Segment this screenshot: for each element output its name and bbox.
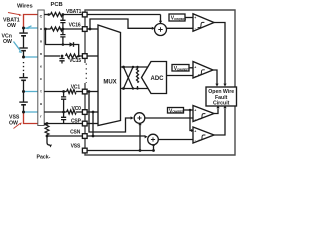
svg-text:Pack-: Pack- [37, 155, 51, 161]
svg-text:VOW(REF): VOW(REF) [171, 16, 186, 22]
svg-text:OW: OW [9, 120, 18, 126]
svg-text:Wires: Wires [17, 3, 33, 9]
svg-text:Circuit: Circuit [213, 100, 230, 106]
svg-text:OW: OW [3, 39, 12, 45]
svg-text:+: + [194, 109, 196, 113]
svg-text:VC15: VC15 [69, 58, 81, 64]
svg-text:VOW(REF): VOW(REF) [169, 108, 184, 114]
svg-text:VC1: VC1 [71, 84, 81, 90]
svg-text:MUX: MUX [103, 80, 116, 86]
svg-text:VOW(REF): VOW(REF) [174, 66, 189, 72]
svg-text:+: + [194, 16, 196, 20]
svg-text:VC0: VC0 [72, 106, 82, 112]
svg-text:CSN: CSN [70, 130, 81, 136]
svg-text:CSP: CSP [71, 119, 82, 125]
svg-text:ADC: ADC [151, 76, 165, 82]
svg-text:c: c [40, 77, 42, 81]
svg-text:OW: OW [7, 23, 16, 29]
svg-text:+: + [194, 130, 196, 134]
svg-text:VSS: VSS [71, 144, 81, 150]
svg-text:+: + [194, 66, 196, 70]
svg-text:VC16: VC16 [69, 23, 81, 29]
svg-text:C: C [40, 15, 43, 19]
svg-text:PCB: PCB [51, 2, 63, 8]
svg-text:e: e [40, 65, 42, 69]
svg-text:VBAT1: VBAT1 [66, 9, 82, 15]
